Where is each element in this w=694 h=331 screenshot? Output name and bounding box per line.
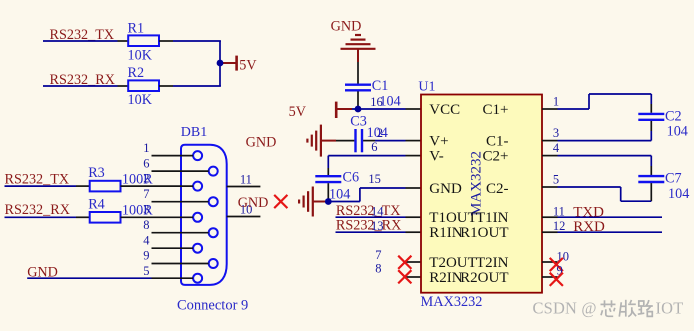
capacitor C1 [345, 62, 401, 109]
svg-text:R1: R1 [128, 20, 145, 36]
svg-text:GND: GND [246, 134, 277, 150]
svg-text:C2-: C2- [486, 181, 509, 197]
resistor R1 [118, 20, 174, 63]
svg-text:5V: 5V [289, 104, 307, 120]
svg-text:104: 104 [667, 124, 688, 140]
pin 10 of DB1 [227, 202, 261, 216]
svg-text:T1IN: T1IN [476, 210, 509, 226]
svg-text:Connector 9: Connector 9 [177, 297, 248, 313]
svg-text:1: 1 [143, 141, 149, 155]
svg-text:GND: GND [238, 195, 269, 211]
resistor R4 [76, 196, 153, 222]
power port 5V (top-left) [223, 56, 257, 74]
svg-text:VCC: VCC [429, 102, 460, 118]
connector DB1 pin circles [193, 151, 218, 283]
svg-text:GND: GND [429, 181, 462, 197]
svg-text:11: 11 [553, 204, 565, 218]
svg-text:6: 6 [371, 140, 377, 154]
no-ERC cross on U1 pin 9 [550, 273, 563, 286]
pin 7 of U1 (T2OUT, no connect) [375, 248, 421, 262]
capacitor C3 [336, 113, 388, 152]
wire vertical joining R1/R2 [219, 41, 221, 86]
pin 1 of U1 / wire C1+ to C2 top [542, 94, 651, 109]
svg-text:R3: R3 [88, 165, 105, 181]
svg-text:T2IN: T2IN [476, 255, 509, 271]
junction dot at 5V node [217, 60, 224, 67]
svg-text:IOT: IOT [656, 299, 684, 318]
connector DB1 outline [181, 145, 227, 285]
svg-text:7: 7 [143, 187, 149, 201]
wire/pin R3 to DB1 pin 2 [121, 172, 194, 187]
svg-text:C1-: C1- [486, 134, 509, 150]
wire ground node to U1 pin 15 (GND) [328, 172, 421, 201]
svg-text:5: 5 [143, 264, 149, 278]
capacitor C6 [315, 168, 359, 203]
pin 4 of DB1 [143, 233, 193, 248]
svg-text:V+: V+ [429, 134, 448, 150]
svg-text:DB1: DB1 [181, 125, 207, 140]
svg-text:R2IN: R2IN [429, 270, 463, 286]
svg-text:T1OUT: T1OUT [429, 210, 477, 226]
junction dot at C6/ground node [325, 198, 332, 205]
svg-text:13: 13 [371, 219, 384, 233]
svg-text:R1IN: R1IN [429, 225, 463, 241]
svg-text:8: 8 [375, 262, 381, 276]
svg-text:U1: U1 [418, 79, 435, 94]
U1 right pin names [460, 102, 509, 286]
svg-text:C6: C6 [343, 169, 360, 185]
power port GND (top, earth symbol) [331, 18, 376, 62]
pin 6 of DB1 [143, 156, 208, 171]
pin 5 of U1 / wire C2- to C7 bottom [542, 173, 651, 202]
svg-text:4: 4 [553, 141, 560, 155]
resistor R3 [76, 165, 153, 191]
wire RS232_RX to R4 [5, 216, 77, 218]
no-ERC cross on U1 pin 7 [398, 256, 411, 269]
watermark chinese glyph lu [638, 300, 653, 316]
pin 12 of U1 / net RXD [542, 219, 662, 235]
svg-text:6: 6 [143, 156, 149, 170]
pin 10 of U1 (T2IN, no connect) [542, 250, 569, 264]
svg-text:RXD: RXD [573, 219, 605, 235]
pin 7 of DB1 [143, 187, 208, 202]
svg-text:RS232_RX: RS232_RX [5, 202, 70, 218]
svg-text:R4: R4 [88, 196, 105, 212]
svg-text:2: 2 [377, 126, 383, 140]
svg-text:10K: 10K [128, 92, 153, 108]
svg-text:RS232_RX: RS232_RX [336, 218, 401, 234]
svg-text:C2+: C2+ [483, 149, 509, 165]
svg-text:C1: C1 [372, 78, 389, 94]
svg-text:R1OUT: R1OUT [460, 225, 508, 241]
resistor R2 [118, 65, 174, 108]
op-amp/IC U1 MAX3232 body [421, 95, 542, 293]
wire GND to DB1 pin 5 [27, 264, 193, 278]
svg-text:TXD: TXD [573, 205, 604, 221]
svg-text:12: 12 [553, 219, 566, 233]
capacitor C7 [638, 166, 689, 202]
svg-text:7: 7 [375, 248, 381, 262]
svg-text:GND: GND [331, 18, 362, 34]
power port 5V (middle) [289, 102, 352, 121]
pin 8 of U1 (R2IN, no connect) [375, 262, 421, 277]
svg-text:5: 5 [553, 173, 559, 187]
svg-text:16: 16 [370, 95, 383, 109]
wire RS232_RX to R2 [43, 85, 118, 87]
pin 8 of DB1 [143, 218, 208, 233]
svg-text:104: 104 [329, 187, 350, 203]
svg-text:104: 104 [668, 186, 689, 202]
U1 left pin names [429, 102, 477, 286]
svg-text:C3: C3 [350, 113, 367, 129]
svg-text:8: 8 [143, 218, 149, 232]
pin 11 of U1 / net TXD [542, 204, 662, 220]
pin 9 of U1 (R2OUT, no connect) [542, 263, 563, 277]
svg-text:3: 3 [553, 126, 559, 140]
pin 1 of DB1 [143, 141, 193, 156]
ground symbol (earth, left of C6 bottom) [299, 187, 325, 217]
wire VCC node to U1 pin 16 [352, 95, 421, 109]
wire C3 to U1 pin 2 (V+) [375, 126, 421, 140]
svg-text:11: 11 [240, 172, 252, 186]
no-ERC cross near DB1 pin 10 [274, 195, 287, 208]
wire RS232_TX to R3 [5, 185, 77, 187]
capacitor C2 [638, 104, 688, 140]
svg-text:T2OUT: T2OUT [429, 255, 477, 271]
svg-text:1: 1 [553, 95, 559, 109]
svg-text:15: 15 [368, 172, 381, 186]
wire RS232_TX to R1 [43, 40, 118, 42]
svg-text:4: 4 [143, 233, 150, 247]
wire R1 to 5V node [173, 40, 221, 42]
junction dot at VCC node [355, 106, 362, 113]
svg-text:MAX3232: MAX3232 [421, 294, 483, 310]
watermark chinese glyph hang [619, 300, 636, 317]
svg-text:5V: 5V [239, 57, 257, 73]
ground symbol (earth, left of C3) [307, 125, 336, 157]
wire U1 pin 6 (V-) down to C6 [328, 140, 421, 168]
svg-text:R2OUT: R2OUT [460, 270, 508, 286]
watermark chinese glyph xin [601, 300, 616, 316]
svg-text:3: 3 [143, 203, 149, 217]
no-ERC cross on U1 pin 10 [550, 258, 563, 271]
svg-text:RS232_TX: RS232_TX [5, 171, 70, 187]
svg-text:2: 2 [143, 172, 149, 186]
svg-text:C1+: C1+ [483, 102, 509, 118]
wire/pin R4 to DB1 pin 3 [121, 203, 194, 218]
svg-text:C2: C2 [665, 108, 682, 124]
svg-text:14: 14 [371, 204, 384, 218]
svg-text:10K: 10K [128, 47, 153, 63]
svg-text:C7: C7 [665, 171, 682, 187]
wire RS232_RX to U1 pin 13 [336, 219, 422, 233]
svg-text:V-: V- [429, 149, 443, 165]
svg-text:CSDN @: CSDN @ [533, 299, 597, 318]
svg-text:R2: R2 [128, 65, 145, 81]
pin 4 of U1 / wire C2+ to C7 top [542, 141, 651, 166]
pin 9 of DB1 [143, 249, 208, 264]
no-ERC cross on U1 pin 8 [398, 270, 411, 283]
wire R2 to 5V node [173, 85, 221, 87]
pin 11 of DB1 [227, 172, 261, 186]
pin 3 of U1 / wire C1- to C2 bottom [542, 126, 651, 141]
wire RS232_TX to U1 pin 14 [336, 204, 422, 218]
svg-text:9: 9 [143, 249, 149, 263]
